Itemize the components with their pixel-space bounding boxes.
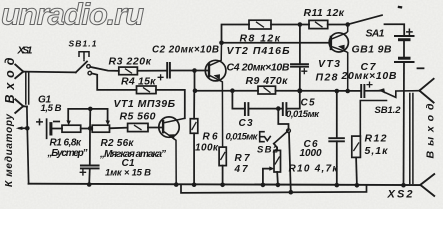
battery GB1 cell2 short plate (400, 57, 410, 60)
node junction R10 wiper-ground (261, 183, 266, 188)
node junction sleeve/booster (25, 126, 30, 131)
wire wiper rail over R1,R2 (68, 109, 107, 122)
label + of C4 (302, 69, 307, 74)
battery G1 short plate (49, 124, 52, 134)
wire R5 to VT1 base (148, 127, 163, 129)
node junction R6 tap on base wire (192, 68, 197, 73)
transistor VT1 emitter (164, 131, 177, 184)
wire SB1.1 upper contact to R3 (90, 67, 119, 71)
svg-text:R4 15к: R4 15к (121, 76, 156, 88)
svg-text:R8 12к: R8 12к (240, 33, 281, 45)
transistor VT2 emitter (209, 75, 222, 147)
svg-text:1000: 1000 (300, 148, 322, 159)
label - of GB1 (418, 67, 424, 69)
wiper of R10 (263, 169, 272, 185)
wiper arrow of R1 (66, 120, 71, 125)
node junction C4 bottom (297, 88, 302, 93)
node junction R7-ground (220, 183, 225, 188)
svg-text:П28: П28 (316, 72, 338, 84)
wire arrow to mediator (19, 127, 27, 129)
resistor R6 body (193, 91, 195, 119)
capacitor C2 plates (167, 63, 170, 78)
svg-text:20мк×10В: 20мк×10В (341, 70, 397, 82)
wire C5 to mid row corner (286, 91, 299, 109)
wire R3 to C2 (137, 70, 167, 72)
node junction C6-ground (335, 183, 340, 188)
connector XS1 barrel (double line) (26, 72, 29, 104)
wire R4 to VT1 collector (156, 90, 185, 118)
resistor R7 body (219, 147, 226, 166)
transistor VT1 base bar (162, 121, 164, 132)
transistor VT3 emitter (331, 46, 348, 91)
node junction R6-ground (192, 182, 197, 187)
node junction SB2-lower rail (289, 190, 294, 195)
label + of C7 (367, 82, 372, 87)
connector XS2 upper fork (tip contact) (419, 79, 433, 103)
svg-text:ХS1: ХS1 (17, 45, 33, 57)
wire wiper tap down through C1 (89, 109, 92, 165)
wiper arrow of R2 (106, 120, 111, 125)
wire G1 to R1 (51, 128, 62, 130)
label + of GB1 (407, 29, 412, 34)
connector XS1 lower fork (sleeve contact) (15, 99, 27, 113)
label - of G1 (54, 121, 59, 123)
wire cap row drop (232, 91, 245, 109)
transistor VT2 circle (205, 60, 226, 81)
resistor R5 body (128, 123, 148, 131)
wire left vertical down to ground rail (27, 128, 28, 183)
pushbutton SB2 drop wire and contact (278, 109, 288, 129)
svg-text:unradio.ru: unradio.ru (1, 0, 144, 32)
pushbutton SB2 actuator E (260, 132, 264, 142)
svg-text:ХS2: ХS2 (387, 189, 413, 201)
wire R9 to output node (276, 90, 362, 92)
battery GB1 cell1 long plate (395, 35, 414, 37)
resistor R3 body (119, 67, 138, 75)
node junction R1-R2 / C1 tap (88, 126, 93, 131)
node junction R12-ground (355, 183, 360, 188)
battery GB1 middle lead (403, 40, 405, 58)
svg-text:R2 56к: R2 56к (101, 138, 135, 149)
pushbutton SB1.1 upper contact (87, 65, 91, 69)
svg-text:SA1: SA1 (366, 28, 385, 40)
svg-text:5,1к: 5,1к (365, 145, 389, 157)
svg-text:100к: 100к (195, 143, 219, 154)
label + of G1 (37, 119, 42, 124)
label + of C1 (80, 170, 85, 175)
svg-text:R11 12к: R11 12к (304, 7, 345, 19)
resistor R2 (soft attack pot) body (92, 125, 109, 132)
wire SB2 contact to lower rail (289, 133, 291, 193)
ground rail lower loop (181, 185, 367, 193)
svg-text:R1 6,8к: R1 6,8к (50, 138, 82, 149)
capacitor C6 plates (329, 138, 344, 141)
transistor VT3 collector (331, 25, 348, 40)
resistor R8 body (249, 20, 271, 29)
wire top supply: collector rail corner to R8 (222, 25, 250, 43)
svg-text:VT1 МП39Б: VT1 МП39Б (114, 98, 176, 110)
pushbutton SB1.1 lower contact (88, 71, 92, 75)
wire GB1 negative to ground rail (403, 62, 406, 185)
node junction C1-ground (87, 182, 92, 187)
svg-text:С4 20мк×10В: С4 20мк×10В (227, 62, 290, 74)
wire C3 to C5 (248, 108, 282, 110)
transistor VT2 base bar (208, 64, 210, 76)
capacitor C4 plates (291, 64, 308, 67)
battery G1 long plate (46, 119, 48, 138)
potentiometer R10 body (274, 144, 277, 151)
svg-text:SB1.2: SB1.2 (375, 105, 402, 116)
wire R2 to R5 (110, 127, 128, 130)
resistor R4 body (137, 86, 157, 94)
node junction VT1 emitter-ground (174, 182, 179, 187)
switch SA1 blade (348, 15, 382, 24)
svg-text:1,5 В: 1,5 В (41, 103, 62, 114)
transistor VT3 circle (329, 33, 348, 52)
node junction C6 tap (335, 89, 340, 94)
capacitor C1 top plate (81, 165, 99, 167)
capacitor C6 top wire (336, 91, 338, 138)
svg-text:R9 470к: R9 470к (246, 75, 289, 87)
svg-text:R12: R12 (365, 133, 387, 145)
svg-text:С5: С5 (301, 98, 315, 109)
capacitor C5 plates (283, 103, 287, 115)
connector XS1 upper fork (tip contact) (15, 65, 23, 79)
wire SB1.1 lower contact to R4 branch (92, 73, 137, 90)
svg-text:0,015мк: 0,015мк (286, 109, 320, 120)
pushbutton SB1.1 blade (76, 62, 87, 73)
wire C2 to VT2 base (170, 70, 209, 72)
connector XS2 lower fork (sleeve contact) (420, 174, 434, 196)
svg-text:VT2 П416Б: VT2 П416Б (227, 45, 291, 57)
wire R6 to ground (193, 133, 195, 184)
switch SB1.2 link bracket to R12 (360, 101, 386, 137)
svg-text:С2 20мк×10В: С2 20мк×10В (152, 45, 219, 56)
svg-text:R5 560: R5 560 (120, 111, 156, 123)
node junction R6/R9 row (193, 88, 198, 93)
node junction collector rail (219, 41, 224, 46)
pushbutton SB2 blade (265, 130, 289, 143)
node junction cap-row drop (230, 88, 235, 93)
wire XS1 sleeve down to booster line (26, 107, 28, 129)
wire R11 to SA1 node (328, 24, 348, 26)
svg-text:0,015мк: 0,015мк (226, 132, 259, 143)
svg-text:VT3: VT3 (318, 58, 340, 70)
wire XS1 tip to SB1.1 (23, 71, 76, 74)
wire R7 to ground (222, 166, 224, 185)
wire C1 to ground rail (88, 168, 91, 184)
wire C6 to ground (336, 141, 338, 185)
transistor VT1 collector (164, 118, 185, 123)
wire C4 to mid row (299, 67, 301, 91)
svg-text:R3 220к: R3 220к (109, 56, 152, 68)
artifact dot (399, 6, 401, 9)
capacitor C7 plates (361, 85, 364, 97)
node junction VT3 emitter-output (345, 89, 350, 94)
capacitor C3 plates (245, 103, 249, 115)
resistor R1 (booster pot) body (62, 125, 81, 132)
svg-text:К медиатору: К медиатору (4, 114, 15, 187)
wire mid row R6 node to R9 (195, 90, 258, 92)
wire R8 to R11 (271, 24, 309, 26)
wire SA1 contact to battery (385, 24, 405, 35)
pushbutton SB1.1 actuator bracket (79, 52, 89, 56)
switch SB1.2 blade (364, 91, 419, 98)
transistor VT2 collector (209, 43, 221, 66)
label + of C2 (158, 75, 163, 80)
battery GB1 cell2 long plate (395, 61, 414, 63)
battery GB1 cell1 short plate (400, 38, 410, 41)
resistor R6 wire from base node (194, 71, 196, 91)
capacitor C4 wire from top tap (299, 25, 301, 65)
node junction C4 top tap (298, 22, 303, 27)
capacitor C1 bottom plate (81, 167, 99, 169)
node junction SB2 drop (276, 106, 281, 111)
wire R1 to R2 (81, 128, 93, 130)
svg-text:С3: С3 (239, 118, 253, 129)
wire collector rail to VT3 base (222, 42, 331, 44)
svg-text:GB1 9В: GB1 9В (352, 44, 392, 56)
node junction R10-ground (276, 183, 281, 188)
resistor R12 body (352, 136, 361, 157)
wire R10 bottom to ground (276, 172, 279, 185)
resistor R11 body (309, 20, 328, 28)
svg-text:SB1.1: SB1.1 (69, 39, 97, 49)
wire R12 to ground (355, 157, 358, 185)
node junction wiper rail center (88, 107, 93, 112)
transistor VT3 base bar (330, 37, 332, 49)
resistor R9 body (258, 86, 276, 94)
node junction GB1-ground (401, 183, 406, 188)
transistor VT1 circle (159, 117, 179, 137)
connector XS2 barrel (double line) (410, 94, 413, 184)
svg-text:1мк × 15 В: 1мк × 15 В (105, 168, 151, 179)
ground rail (main) (29, 184, 420, 185)
node junction SA1/VT3 collector (345, 22, 350, 27)
svg-text:„Бустер”: „Бустер” (47, 148, 88, 159)
